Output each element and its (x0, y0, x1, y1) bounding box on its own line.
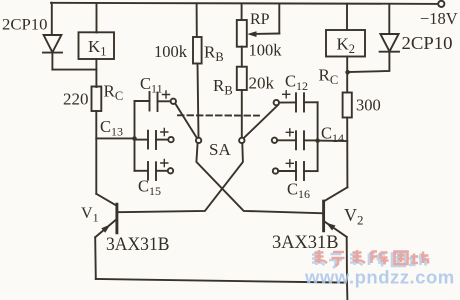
svg-text:C15: C15 (138, 177, 161, 199)
svg-text:220: 220 (63, 90, 89, 109)
terminal -18V (438, 1, 444, 7)
resistor RC1 220 (92, 87, 102, 112)
svg-text:RC: RC (104, 82, 124, 104)
diode VD1 2CP10 (left) (43, 3, 62, 70)
svg-text:C13: C13 (100, 117, 123, 139)
wire collector column V2 (346, 118, 348, 188)
wire right cap bank common (317, 102, 319, 171)
switch contact C15 (168, 168, 173, 173)
svg-text:RB: RB (213, 76, 233, 98)
capacitor C16 (273, 160, 318, 180)
switch SA gang link (dashed) (178, 114, 259, 116)
svg-text:2CP10: 2CP10 (2, 17, 48, 34)
switch contact C13 (168, 137, 173, 142)
svg-text:SA: SA (209, 140, 231, 159)
relay K1 (79, 3, 115, 87)
capacitor C11 (135, 91, 171, 111)
switch SA pole right (239, 105, 278, 143)
relay K2 (326, 4, 365, 93)
svg-text:C16: C16 (287, 180, 310, 202)
svg-text:www.pndzz.com: www.pndzz.com (304, 267, 455, 288)
svg-text:C11: C11 (140, 74, 163, 96)
svg-text:K1: K1 (88, 37, 107, 59)
svg-text:3AX31B: 3AX31B (106, 234, 170, 255)
svg-text:100k: 100k (154, 42, 188, 61)
svg-text:V1: V1 (81, 205, 99, 225)
wire collector column V1 (95, 111, 97, 194)
svg-text:300: 300 (356, 96, 381, 115)
svg-text:−18V: −18V (420, 9, 458, 28)
svg-text:C12: C12 (285, 72, 308, 94)
svg-text:RP: RP (250, 11, 270, 28)
svg-text:RC: RC (319, 66, 339, 88)
capacitor C14 (272, 129, 318, 150)
wire top supply rail (51, 3, 438, 4)
svg-text:100k: 100k (249, 41, 283, 60)
svg-text:K2: K2 (337, 35, 356, 57)
svg-text:V2: V2 (344, 205, 364, 228)
svg-text:3AX31B: 3AX31B (272, 232, 339, 253)
capacitor C15 (135, 160, 168, 181)
node junction left cap bank (132, 136, 137, 141)
potentiometer RP (237, 4, 279, 47)
svg-text:20k: 20k (249, 74, 275, 93)
resistor RC2 300 (343, 93, 352, 118)
capacitor C12 (274, 91, 318, 112)
wire right pole to V1 base (cross) (117, 143, 243, 212)
node junction K2/diode (345, 70, 350, 75)
wire left cap bank common (134, 101, 136, 171)
resistor RB1 100k (193, 3, 202, 137)
svg-text:RB: RB (204, 43, 224, 65)
wire right cap bank to collector column (318, 140, 348, 142)
diode VD2 2CP10 (right) (348, 4, 399, 72)
transistor V1 (95, 194, 117, 279)
switch SA pole left (175, 104, 201, 143)
wire left pole to V2 base (cross) (196, 143, 323, 213)
node junction right cap bank (315, 138, 320, 143)
wire V2 emitter stub to edge (346, 283, 348, 300)
transistor V2 (324, 187, 348, 282)
wire bottom emitter rail (96, 279, 347, 283)
wire branch to capacitor bank (96, 137, 134, 139)
switch contact C11 (171, 99, 176, 104)
svg-text:2CP10: 2CP10 (402, 33, 453, 53)
resistor RB2 20k (237, 47, 247, 138)
watermark line1 电子电路图站 (312, 252, 426, 268)
wire diode to K1 column (52, 69, 96, 71)
capacitor C13 (135, 129, 169, 150)
